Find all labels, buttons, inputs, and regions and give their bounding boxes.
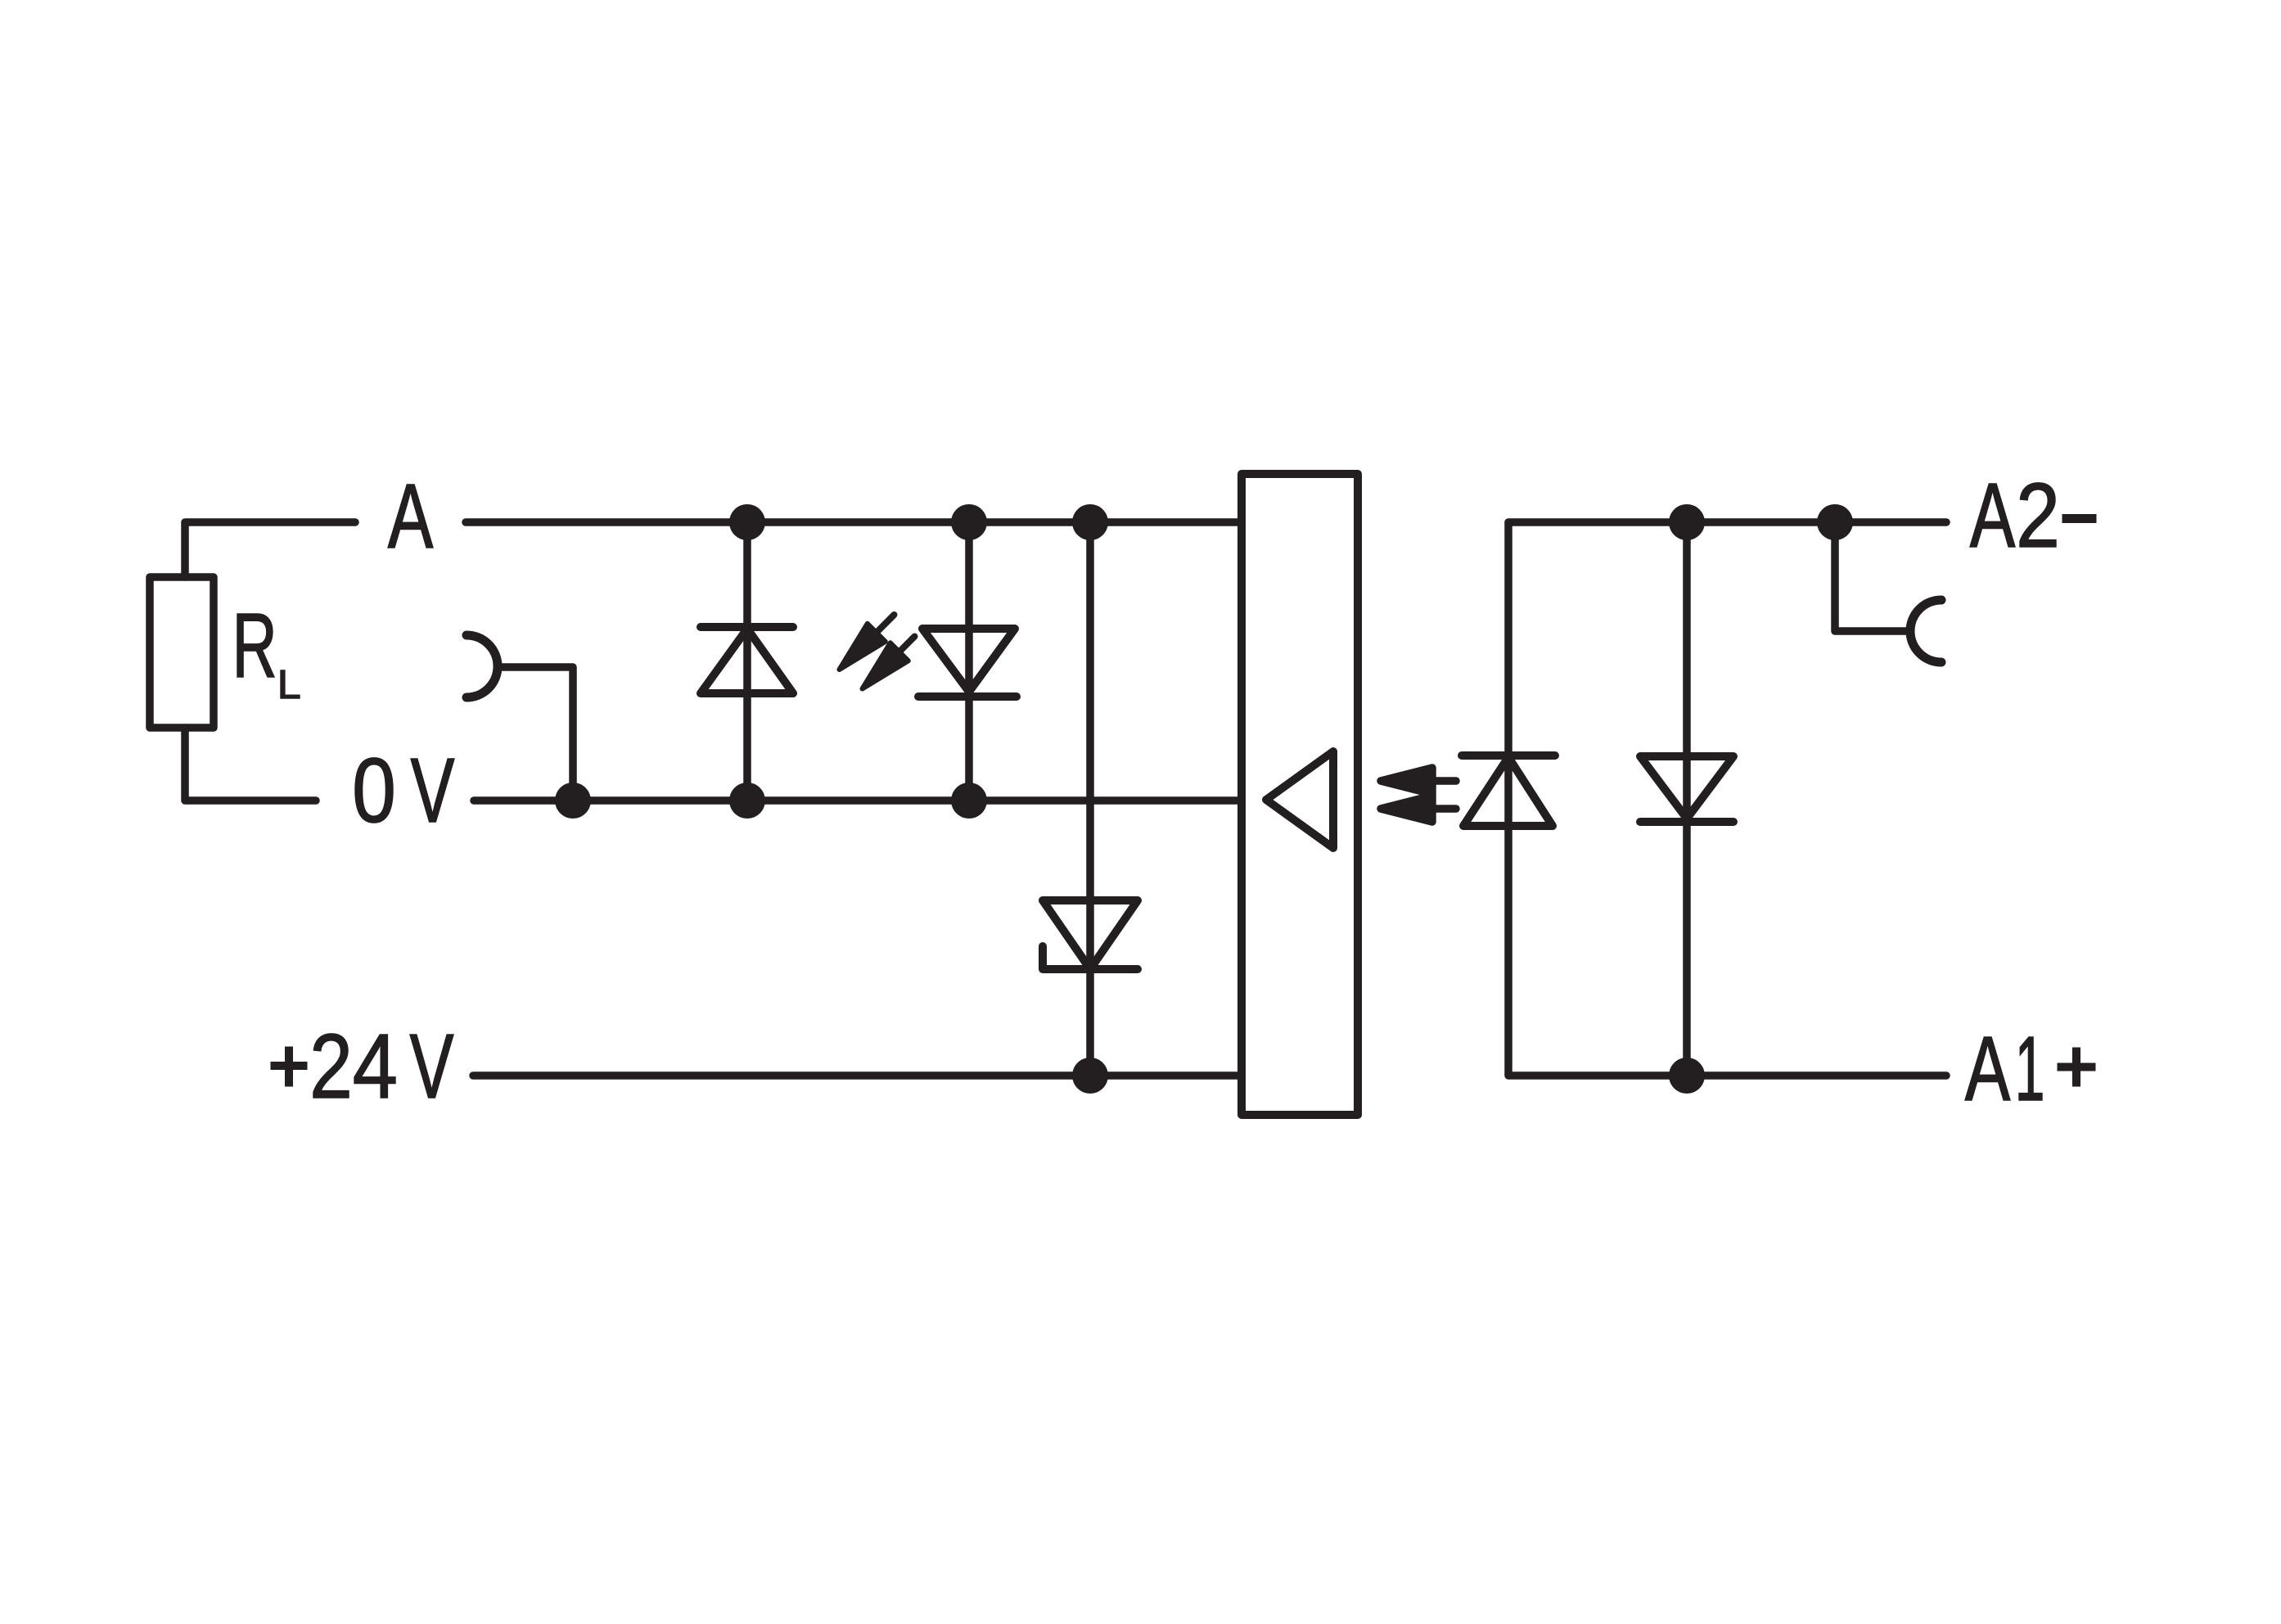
wire: freewheeling diode branch	[1683, 522, 1691, 1076]
junction A2- / connector stub	[1817, 504, 1853, 540]
connector (female contact) right	[1910, 600, 1941, 662]
label 0 V	[355, 758, 454, 823]
LED D2 status (pointing down)	[918, 629, 1017, 697]
wire: zener branch from A rail to +24V rail	[1086, 522, 1094, 1076]
wire: A rail from label to optocoupler	[466, 518, 1242, 526]
junction A1+ / freewheeling diode	[1669, 1058, 1705, 1094]
diode D1 suppressor (pointing up)	[701, 627, 793, 693]
LED emission arrow 2	[863, 637, 915, 689]
junction 0V / D1	[729, 783, 765, 819]
opto emitter LED (pointing up)	[1462, 756, 1555, 826]
LED emission arrow 1	[840, 615, 895, 670]
label RL	[237, 614, 300, 698]
wire: opto emitter LED branch	[1504, 522, 1512, 1076]
junction 0V / connector stub	[555, 783, 591, 819]
node A label	[388, 485, 433, 548]
wire: 0V rail from label to optocoupler	[474, 796, 1242, 805]
wire: +24V rail to optocoupler	[473, 1071, 1242, 1080]
junction A2- / freewheeling diode	[1669, 504, 1705, 540]
label A1+	[1965, 1037, 2095, 1100]
junction A rail / D1	[729, 504, 765, 540]
label A2-	[1970, 483, 2096, 547]
wire: A2- rail	[1508, 518, 1946, 526]
junction A rail / zener	[1072, 504, 1108, 540]
junction A rail / LED	[951, 504, 987, 540]
optocoupler light arrow 2	[1381, 796, 1456, 822]
freewheeling diode (pointing down)	[1640, 756, 1733, 822]
resistor RL	[150, 577, 214, 728]
wire: right connector to A2- rail	[1835, 522, 1908, 631]
wire: diode D1 branch	[743, 522, 751, 801]
optocoupler light arrow 1	[1381, 768, 1456, 794]
wire: R_L bottom to 0V lead	[185, 728, 316, 801]
wire: A1+ rail	[1508, 1071, 1946, 1080]
wire: A terminal lead to R_L	[185, 522, 355, 577]
junction 0V / LED	[951, 783, 987, 819]
junction +24V / zener	[1072, 1058, 1108, 1094]
connector (female contact) left	[467, 635, 498, 697]
zener diode D3 (pointing down, hooked cathode)	[1043, 900, 1138, 969]
optocoupler receiver triangle	[1266, 751, 1333, 848]
wire: left connector to 0V rail	[501, 667, 573, 801]
optocoupler U1 body	[1242, 474, 1358, 1115]
label +24 V	[271, 1034, 453, 1098]
wire: status LED branch	[965, 522, 973, 801]
